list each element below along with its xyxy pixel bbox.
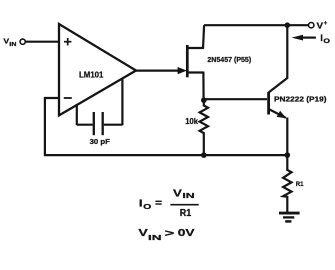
junction dot JFET source / base / 10k bbox=[201, 97, 207, 103]
resistor R1 bbox=[283, 155, 304, 212]
svg-text:0V: 0V bbox=[178, 227, 195, 239]
svg-text:IN: IN bbox=[148, 233, 162, 242]
wire op-amp output to JFET gate bbox=[136, 69, 179, 71]
svg-text:O: O bbox=[143, 202, 151, 211]
svg-text:+: + bbox=[324, 21, 328, 27]
svg-text:10k: 10k bbox=[185, 116, 198, 126]
formula IO = VIN / R1 bbox=[139, 187, 199, 219]
ground bbox=[279, 213, 300, 221]
formula VIN > 0V bbox=[138, 227, 194, 242]
arrow IO output current bbox=[292, 33, 331, 45]
svg-text:IN: IN bbox=[182, 193, 194, 200]
svg-text:R1: R1 bbox=[296, 181, 304, 188]
svg-text:V: V bbox=[3, 36, 9, 45]
wire JFET source node to Q2 base bbox=[204, 98, 267, 100]
svg-text:I: I bbox=[139, 198, 143, 210]
junction dot collector/top rail bbox=[285, 22, 291, 28]
node V+ terminal bbox=[309, 21, 328, 31]
transistor Q1 JFET 2N5457 bbox=[178, 25, 252, 100]
junction dot emitter / R1 / feedback bbox=[285, 152, 291, 158]
junction dot 10k / feedback wire bbox=[201, 152, 207, 158]
svg-text:V: V bbox=[173, 187, 182, 199]
wire VIN to op-amp + input bbox=[26, 41, 59, 43]
svg-text:>: > bbox=[165, 228, 175, 240]
resistor 10k bbox=[185, 100, 208, 155]
op-amp U1 LM101 bbox=[59, 24, 136, 115]
svg-text:V: V bbox=[317, 22, 324, 31]
svg-text:PN2222 (P19): PN2222 (P19) bbox=[274, 97, 327, 104]
svg-text:LM101: LM101 bbox=[79, 70, 104, 79]
node VIN input terminal bbox=[3, 36, 25, 47]
svg-text:2N5457 (P55): 2N5457 (P55) bbox=[207, 57, 251, 64]
capacitor C1 30 pF bbox=[77, 78, 123, 146]
wire top supply rail bbox=[204, 24, 308, 26]
svg-text:O: O bbox=[323, 39, 330, 45]
svg-text:30 pF: 30 pF bbox=[90, 139, 110, 146]
svg-text:IN: IN bbox=[9, 42, 16, 48]
svg-text:V: V bbox=[138, 227, 147, 239]
transistor Q2 PN2222 bbox=[269, 25, 327, 155]
wire op-amp inverting input feedback (left/bottom) bbox=[45, 98, 287, 155]
svg-text:R1: R1 bbox=[180, 207, 192, 219]
